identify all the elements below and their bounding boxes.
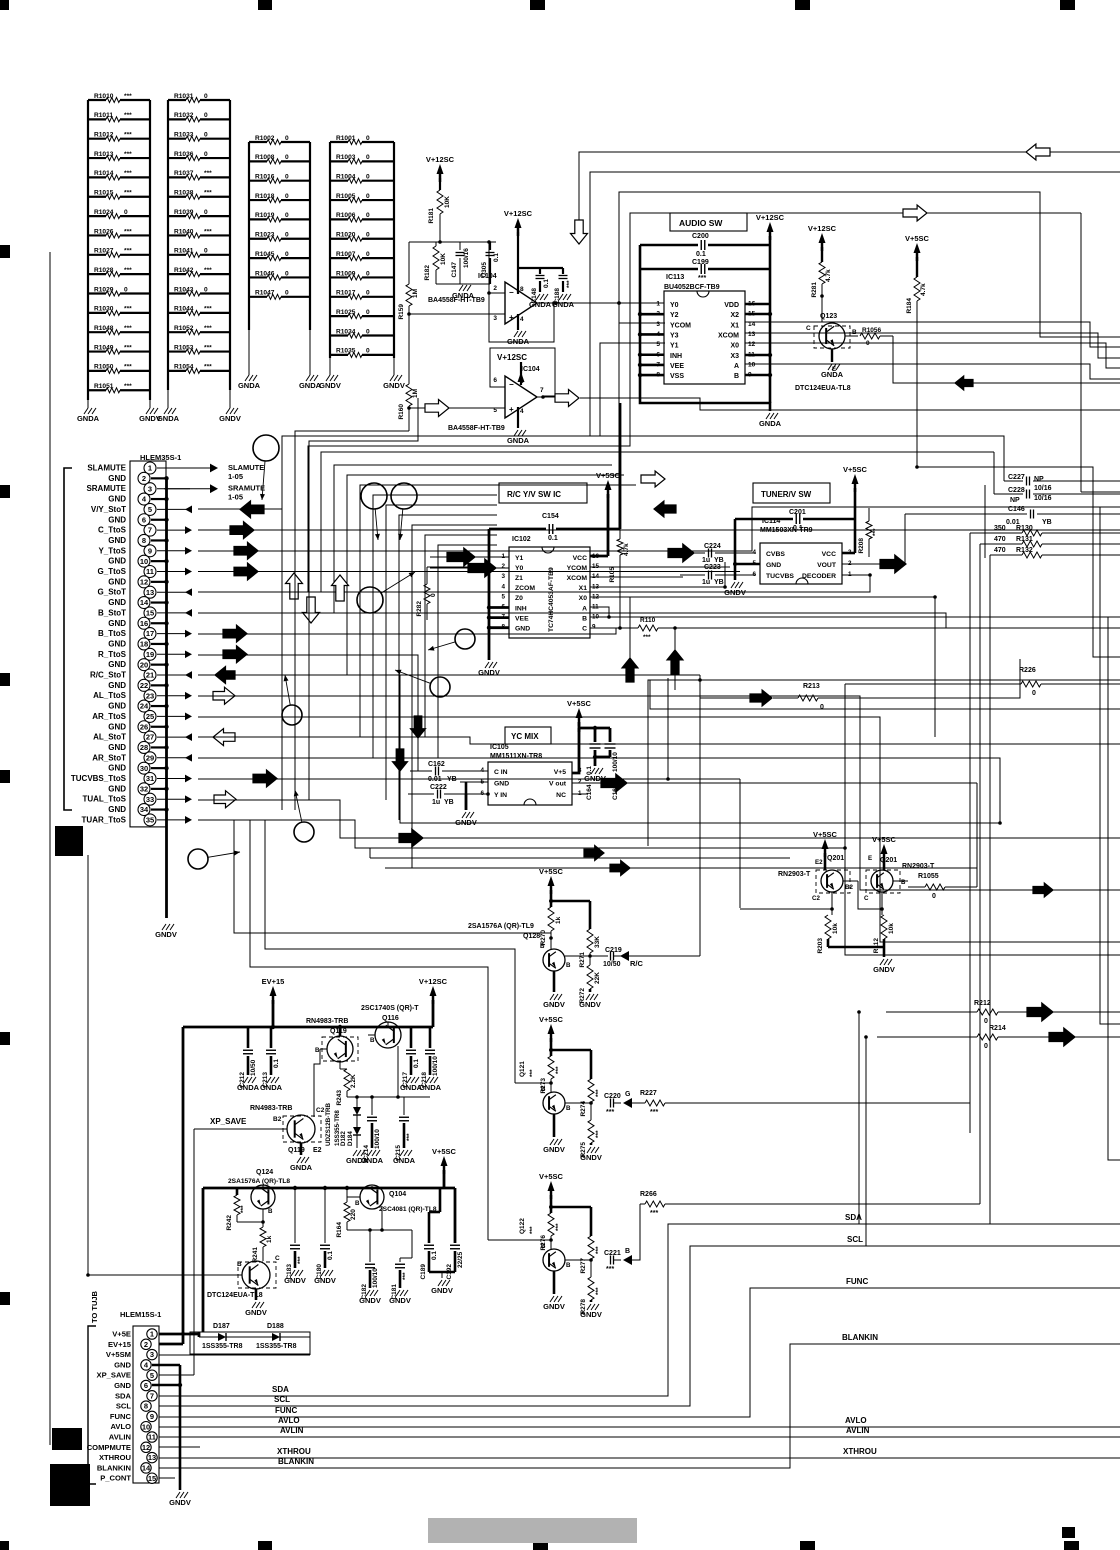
svg-text:E: E bbox=[868, 855, 872, 862]
fan wire j bbox=[438, 545, 497, 758]
capacitor C146 bbox=[905, 506, 1120, 564]
svg-text:Y0: Y0 bbox=[515, 565, 524, 572]
svg-text:2SA1576A (QR)-TL8: 2SA1576A (QR)-TL8 bbox=[228, 1178, 290, 1185]
svg-text:R1034: R1034 bbox=[336, 328, 356, 335]
svg-text:32: 32 bbox=[140, 784, 148, 793]
resistor R273 bbox=[540, 1056, 562, 1094]
fan stair top b bbox=[309, 398, 418, 800]
ground GNDA under Q123 bbox=[821, 364, 844, 379]
svg-text:D182: D182 bbox=[340, 1131, 347, 1146]
svg-text:TUNER/V SW: TUNER/V SW bbox=[761, 490, 812, 499]
ground GNDV under Q122 bbox=[543, 1296, 565, 1311]
svg-text:R1025: R1025 bbox=[336, 309, 356, 316]
signal arrow pin 13 bbox=[185, 588, 192, 596]
svg-text:P_CONT: P_CONT bbox=[100, 1474, 131, 1483]
svg-text:R1024: R1024 bbox=[94, 209, 114, 216]
svg-text:5: 5 bbox=[656, 341, 660, 348]
svg-text:AUDIO SW: AUDIO SW bbox=[679, 218, 723, 228]
svg-text:R274: R274 bbox=[580, 1101, 587, 1117]
svg-text:GNDV: GNDV bbox=[579, 1000, 601, 1009]
power net V+5SC at Q104 bbox=[432, 1147, 457, 1174]
wire feed Q121 base long bbox=[265, 820, 515, 1083]
ground GNDA under R182 bbox=[436, 283, 490, 285]
svg-text:GND: GND bbox=[108, 577, 126, 586]
svg-text:AVLIN: AVLIN bbox=[280, 1426, 304, 1435]
svg-text:0: 0 bbox=[204, 248, 208, 255]
ground GNDA under C188 bbox=[552, 294, 575, 309]
fan wire a bbox=[321, 452, 994, 592]
connector pin 6 GND bbox=[108, 514, 168, 526]
signal arrow pin 7 bbox=[185, 526, 192, 534]
ground GNDA under C212 bbox=[237, 1077, 260, 1092]
svg-text:V+5SM: V+5SM bbox=[106, 1350, 131, 1359]
svg-text:AVLO: AVLO bbox=[110, 1422, 131, 1431]
ground GNDA under C217 bbox=[400, 1077, 423, 1092]
resistor R275 bbox=[580, 1103, 602, 1158]
svg-text:1M: 1M bbox=[412, 289, 419, 298]
connector pin 1 V+5E bbox=[112, 1329, 157, 1339]
fan wire f bbox=[386, 505, 497, 800]
svg-text:R/C Y/V SW IC: R/C Y/V SW IC bbox=[507, 490, 561, 499]
svg-text:C199: C199 bbox=[692, 259, 709, 266]
svg-text:C189: C189 bbox=[420, 1264, 427, 1280]
svg-text:GNDA: GNDA bbox=[238, 381, 261, 390]
svg-text:C IN: C IN bbox=[494, 769, 508, 776]
svg-text:D187: D187 bbox=[213, 1323, 230, 1330]
svg-text:25: 25 bbox=[146, 712, 154, 721]
cap bus x985 bbox=[984, 485, 986, 558]
svg-text:IC102: IC102 bbox=[512, 536, 531, 543]
connector pin 21 R/C_StoT bbox=[90, 669, 190, 681]
capacitor C162 bbox=[410, 761, 488, 783]
transistor Q104 2SC4081 bbox=[347, 1185, 437, 1230]
svg-text:***: *** bbox=[606, 1266, 614, 1273]
svg-text:***: *** bbox=[595, 1089, 602, 1097]
svg-text:19: 19 bbox=[146, 650, 154, 659]
resistor R1045 bbox=[249, 251, 310, 261]
svg-text:V/Y_StoT: V/Y_StoT bbox=[91, 505, 126, 514]
wire R203 R112 join bbox=[828, 946, 884, 949]
svg-text:V+12SC: V+12SC bbox=[497, 353, 527, 362]
svg-text:XCOM: XCOM bbox=[718, 332, 739, 339]
connector pin 18 GND bbox=[108, 638, 168, 650]
svg-text:5: 5 bbox=[148, 505, 152, 514]
wire pin25 AR_TtoS bbox=[198, 717, 1120, 942]
svg-text:R/C_StoT: R/C_StoT bbox=[90, 671, 126, 680]
svg-text:RN2903-T: RN2903-T bbox=[778, 871, 811, 878]
connector pin 2 GND bbox=[108, 472, 168, 484]
signal arrow pin 23 bbox=[185, 692, 192, 700]
wire top frame 2 bbox=[282, 172, 1120, 810]
svg-text:SRAMUTE: SRAMUTE bbox=[86, 484, 126, 493]
fan wire h bbox=[412, 525, 497, 868]
svg-text:2SC1740S (QR)-T: 2SC1740S (QR)-T bbox=[361, 1005, 419, 1012]
svg-text:GND: GND bbox=[494, 780, 509, 787]
resistor R1023 bbox=[249, 232, 310, 242]
vertical with up arrow x675 bbox=[667, 626, 683, 690]
connector pin 5 XP_SAVE bbox=[97, 1370, 158, 1380]
connector pin 9 FUNC bbox=[110, 1411, 157, 1421]
wire SDA bbox=[159, 1213, 1120, 1396]
svg-text:GNDA: GNDA bbox=[260, 1083, 283, 1092]
svg-text:0: 0 bbox=[204, 93, 208, 100]
svg-text:BA4558F-HT-TB9: BA4558F-HT-TB9 bbox=[448, 425, 505, 432]
resistor R1024 bbox=[88, 209, 150, 219]
block arrow from opamp2 bbox=[555, 390, 579, 407]
svg-text:12: 12 bbox=[140, 577, 148, 586]
svg-text:V+5E: V+5E bbox=[112, 1330, 131, 1339]
callout circle bbox=[294, 790, 314, 842]
svg-text:GNDV: GNDV bbox=[580, 1153, 602, 1162]
bus line 858 bbox=[369, 848, 371, 858]
svg-text:2SC4081 (QR)-TL8: 2SC4081 (QR)-TL8 bbox=[379, 1206, 437, 1213]
svg-text:R1019: R1019 bbox=[255, 212, 275, 219]
svg-text:***: *** bbox=[555, 1066, 562, 1074]
svg-text:Q201: Q201 bbox=[880, 857, 897, 864]
svg-text:R271: R271 bbox=[579, 952, 586, 968]
connector pin 24 GND bbox=[108, 700, 168, 712]
resistor R274 bbox=[580, 1079, 602, 1117]
svg-text:9: 9 bbox=[150, 1412, 154, 1421]
resistor R1009 bbox=[330, 270, 394, 280]
thick bus V+5SC lower bbox=[203, 1188, 455, 1332]
svg-text:33: 33 bbox=[146, 795, 154, 804]
fan stair top a bbox=[295, 431, 409, 810]
svg-text:V+5: V+5 bbox=[554, 769, 567, 776]
svg-text:R1003: R1003 bbox=[336, 154, 356, 161]
svg-text:R243: R243 bbox=[336, 1090, 343, 1106]
power net V+12SC (R181 block) bbox=[426, 155, 455, 182]
svg-text:4: 4 bbox=[501, 583, 505, 590]
svg-text:***: *** bbox=[595, 1130, 602, 1138]
svg-text:C_TtoS: C_TtoS bbox=[98, 526, 127, 535]
power net V+5SC at Q201a bbox=[813, 830, 838, 857]
resistor R1001 bbox=[330, 135, 394, 145]
svg-text:VSS: VSS bbox=[670, 373, 684, 380]
wire pin19 R_TtoS bbox=[198, 655, 418, 771]
svg-text:XP_SAVE: XP_SAVE bbox=[97, 1371, 131, 1380]
IC U102 TC74HC4053AF body bbox=[501, 536, 599, 638]
connector pin 7 SDA bbox=[115, 1391, 157, 1401]
svg-text:1u: 1u bbox=[432, 799, 440, 806]
svg-text:E: E bbox=[832, 366, 836, 373]
svg-text:0: 0 bbox=[285, 232, 289, 239]
svg-text:***: *** bbox=[124, 248, 132, 255]
svg-text:4.7k: 4.7k bbox=[623, 543, 630, 556]
svg-text:***: *** bbox=[297, 1256, 304, 1264]
IC114 VOUT wire bbox=[842, 563, 884, 565]
svg-text:C222: C222 bbox=[430, 784, 447, 791]
svg-text:VCC: VCC bbox=[573, 555, 587, 562]
svg-text:R1020: R1020 bbox=[336, 232, 356, 239]
svg-text:R1033: R1033 bbox=[174, 132, 194, 139]
svg-text:SDA: SDA bbox=[845, 1213, 862, 1222]
svg-text:3: 3 bbox=[656, 321, 660, 328]
wire IC113 A staircase bbox=[745, 364, 1120, 379]
svg-text:R1041: R1041 bbox=[174, 248, 194, 255]
svg-text:V+12SC: V+12SC bbox=[756, 213, 785, 222]
ground GNDV under C182 bbox=[359, 1290, 381, 1305]
svg-text:Y0: Y0 bbox=[670, 302, 679, 309]
wire opamp1 inputs bbox=[489, 292, 505, 294]
svg-text:0: 0 bbox=[285, 193, 289, 200]
svg-text:0: 0 bbox=[285, 212, 289, 219]
svg-text:Y2: Y2 bbox=[670, 312, 679, 319]
block arrow into opamp2 bbox=[425, 400, 449, 417]
svg-text:0.1: 0.1 bbox=[493, 253, 500, 262]
callout circle bbox=[253, 435, 279, 500]
svg-text:7: 7 bbox=[148, 526, 152, 535]
svg-text:C228: C228 bbox=[1008, 487, 1025, 494]
svg-text:AVLIN: AVLIN bbox=[109, 1433, 131, 1442]
svg-text:R164: R164 bbox=[336, 1222, 343, 1238]
connector pin 29 AR_StoT bbox=[92, 752, 190, 764]
power net EV+15 bbox=[262, 977, 285, 1004]
svg-text:GNDV: GNDV bbox=[543, 1302, 565, 1311]
svg-text:R1012: R1012 bbox=[94, 132, 114, 139]
svg-text:G_StoT: G_StoT bbox=[98, 588, 127, 597]
svg-text:R182: R182 bbox=[424, 265, 431, 281]
arrow on bus 838 bbox=[399, 829, 423, 847]
svg-text:Q104: Q104 bbox=[389, 1191, 406, 1198]
svg-text:SLAMUTE: SLAMUTE bbox=[87, 464, 126, 473]
HLEM15S GND bus bbox=[152, 1365, 182, 1490]
signal arrow pin 9 bbox=[185, 547, 192, 555]
svg-text:C221: C221 bbox=[604, 1250, 621, 1257]
svg-text:R1004: R1004 bbox=[336, 174, 356, 181]
svg-text:11: 11 bbox=[148, 1433, 156, 1442]
arrow into C219 bbox=[620, 951, 629, 961]
svg-text:GNDA: GNDA bbox=[290, 1163, 313, 1172]
svg-text:B: B bbox=[541, 1243, 546, 1250]
wire BLANKIN bbox=[159, 1333, 1120, 1468]
svg-text:R1039: R1039 bbox=[174, 209, 194, 216]
IC113 pin3 YCOM wire bbox=[619, 322, 664, 324]
resistor R1019 bbox=[249, 212, 310, 222]
svg-text:B: B bbox=[625, 1248, 630, 1255]
wire pin5 XP_SAVE bbox=[159, 1374, 194, 1376]
svg-text:R1006: R1006 bbox=[336, 212, 356, 219]
wire Q119b collector to Q119a bbox=[314, 1049, 320, 1117]
wire opamp2 inputs bbox=[409, 407, 505, 409]
svg-text:X3: X3 bbox=[730, 353, 739, 360]
block arrow V/Y_StoT bbox=[240, 501, 264, 518]
connector pin 25 AR_TtoS bbox=[92, 710, 190, 722]
svg-text:26: 26 bbox=[140, 722, 148, 731]
IC114 left wiring bbox=[733, 519, 760, 580]
svg-text:1M: 1M bbox=[412, 389, 419, 398]
ground GNDV for HLEM35S-1 bbox=[155, 924, 177, 939]
svg-text:2: 2 bbox=[493, 285, 497, 292]
resistor R1043 bbox=[168, 286, 230, 296]
callout circle bbox=[391, 483, 417, 540]
connector pin 30 GND bbox=[108, 762, 168, 774]
svg-text:4.7k: 4.7k bbox=[920, 283, 927, 296]
resistor R1055 bbox=[908, 783, 977, 900]
svg-text:C: C bbox=[806, 325, 811, 332]
svg-text:0: 0 bbox=[204, 151, 208, 158]
wire pin2 EV+15 bbox=[159, 1343, 183, 1346]
transistor Q201b RN2903-T bbox=[864, 855, 935, 911]
resistor R1005 bbox=[330, 193, 394, 203]
svg-text:10: 10 bbox=[748, 361, 756, 368]
svg-text:R1010: R1010 bbox=[94, 93, 114, 100]
svg-text:GND: GND bbox=[108, 598, 126, 607]
svg-text:SCL: SCL bbox=[116, 1402, 132, 1411]
resistor R1049 bbox=[88, 344, 150, 354]
capacitor C180 bbox=[316, 1186, 334, 1280]
svg-text:Q121: Q121 bbox=[519, 1061, 526, 1077]
resistor R277 bbox=[580, 1236, 602, 1274]
wire pin21 R/C_StoT bbox=[198, 675, 700, 880]
wire IC105 Vout east bbox=[730, 783, 977, 882]
resistor R181 bbox=[428, 178, 451, 224]
wire pin5 V/Y_StoT line bbox=[198, 508, 282, 510]
svg-text:EV+15: EV+15 bbox=[108, 1340, 132, 1349]
ground GNDV under R272 bbox=[579, 994, 601, 1009]
svg-text:CVBS: CVBS bbox=[766, 551, 785, 558]
svg-text:0.1: 0.1 bbox=[413, 1059, 420, 1068]
svg-text:GND: GND bbox=[766, 562, 781, 569]
svg-text:BLANKIN: BLANKIN bbox=[278, 1457, 314, 1466]
ground GNDA bbox=[157, 390, 180, 423]
svg-text:VEE: VEE bbox=[670, 363, 684, 370]
svg-text:R1048: R1048 bbox=[94, 325, 114, 332]
svg-text:8: 8 bbox=[144, 1402, 148, 1411]
svg-text:28: 28 bbox=[140, 743, 148, 752]
svg-text:***: *** bbox=[529, 1069, 536, 1077]
svg-text:X1: X1 bbox=[579, 585, 588, 592]
capacitor C224 bbox=[694, 543, 756, 564]
resistor R105 bbox=[609, 529, 630, 630]
svg-text:GNDV: GNDV bbox=[155, 930, 177, 939]
svg-text:10/16: 10/16 bbox=[1034, 495, 1052, 502]
svg-text:10k: 10k bbox=[832, 923, 839, 934]
svg-text:C164: C164 bbox=[586, 784, 593, 800]
diode D187 bbox=[199, 1323, 272, 1350]
svg-text:E2: E2 bbox=[313, 1147, 322, 1154]
transistor Q201a RN2903-T bbox=[778, 853, 858, 911]
svg-text:DECODER: DECODER bbox=[802, 573, 836, 580]
svg-text:100/10: 100/10 bbox=[432, 1056, 439, 1076]
svg-text:0: 0 bbox=[1032, 690, 1036, 697]
svg-text:***: *** bbox=[124, 170, 132, 177]
svg-text:***: *** bbox=[124, 325, 132, 332]
capacitor C227 bbox=[1004, 474, 1120, 486]
svg-text:V+5SC: V+5SC bbox=[872, 835, 897, 844]
svg-text:Z0: Z0 bbox=[515, 595, 523, 602]
signal arrow pin 35 bbox=[185, 816, 192, 824]
svg-text:100/10: 100/10 bbox=[612, 752, 619, 772]
svg-text:220: 220 bbox=[350, 1209, 357, 1220]
ground GNDA under C215 bbox=[393, 1150, 416, 1165]
connector pin 4 GND bbox=[108, 493, 168, 505]
svg-text:R1044: R1044 bbox=[174, 306, 194, 313]
connector pin 6 GND bbox=[114, 1380, 151, 1390]
transistor Q115 DTC124EUA bbox=[207, 1255, 280, 1300]
svg-text:R1055: R1055 bbox=[918, 873, 939, 880]
resistor R1037 bbox=[168, 170, 230, 180]
svg-text:35: 35 bbox=[146, 816, 154, 825]
connector pin 12 GND bbox=[108, 576, 168, 588]
resistor R1011 bbox=[88, 112, 150, 122]
svg-text:RN4983-TRB: RN4983-TRB bbox=[306, 1018, 348, 1025]
svg-text:R1045: R1045 bbox=[255, 251, 275, 258]
wire pin3 V+5SM bbox=[159, 1354, 310, 1356]
svg-text:GND: GND bbox=[108, 619, 126, 628]
svg-text:−: − bbox=[509, 380, 514, 389]
resistor R242 bbox=[226, 1188, 263, 1231]
block arrow B_TtoS bbox=[223, 625, 247, 642]
resistor R1020 bbox=[330, 232, 394, 242]
wire opamp2 output bbox=[537, 396, 556, 398]
svg-text:12: 12 bbox=[142, 1443, 150, 1452]
resistor R1051 bbox=[88, 383, 150, 393]
connector pin 8 SCL bbox=[116, 1401, 151, 1411]
capacitor C222 bbox=[408, 784, 490, 806]
svg-text:***: *** bbox=[555, 1223, 562, 1231]
svg-text:R1009: R1009 bbox=[336, 270, 356, 277]
svg-text:GNDV: GNDV bbox=[284, 1276, 306, 1285]
connector pin 15 B_StoT bbox=[98, 607, 190, 619]
resistor R1034 bbox=[330, 328, 394, 338]
svg-text:B2: B2 bbox=[845, 884, 853, 891]
ground GNDA under Q119b bbox=[290, 1157, 313, 1172]
wire FUNC bbox=[159, 1277, 1120, 1417]
bus line 868 bbox=[385, 846, 977, 876]
IC U105 MM1511XN body bbox=[480, 762, 582, 805]
fan wire e bbox=[373, 495, 497, 758]
capacitor C164 bbox=[586, 728, 601, 800]
svg-text:Y1: Y1 bbox=[670, 343, 679, 350]
svg-text:R1047: R1047 bbox=[255, 290, 275, 297]
svg-text:G_TtoS: G_TtoS bbox=[98, 567, 127, 576]
ground GNDV under C180 bbox=[314, 1270, 336, 1285]
resistor R1004 bbox=[330, 174, 394, 184]
connector pin 28 GND bbox=[108, 741, 168, 753]
svg-text:R1051: R1051 bbox=[94, 383, 114, 390]
capacitor C305 bbox=[481, 242, 500, 284]
block arrow AL_TtoS hollow bbox=[213, 687, 235, 704]
svg-text:4.7k: 4.7k bbox=[825, 269, 832, 282]
resistor R160 bbox=[398, 314, 419, 431]
resistor R241 bbox=[252, 1220, 273, 1262]
resistor R1029 bbox=[88, 286, 150, 296]
box TUNER/V SW bbox=[753, 483, 830, 503]
svg-text:C: C bbox=[582, 626, 587, 633]
wire C219 to corner bbox=[629, 955, 700, 957]
power net V+5SC at IC102 bbox=[596, 471, 621, 498]
svg-text:VDD: VDD bbox=[724, 302, 739, 309]
svg-text:0: 0 bbox=[430, 593, 437, 597]
svg-text:GND: GND bbox=[108, 536, 126, 545]
svg-text:18: 18 bbox=[140, 640, 148, 649]
wire pin7 C_TtoS bbox=[198, 529, 1120, 531]
svg-text:XTHROU: XTHROU bbox=[99, 1453, 132, 1462]
svg-text:B: B bbox=[901, 879, 906, 886]
ground GNDV bbox=[383, 358, 405, 390]
wire pin33 TUAL_TtoS bbox=[198, 800, 1120, 838]
svg-text:MM1511XN-TR8: MM1511XN-TR8 bbox=[490, 753, 542, 760]
connector pin 5 V/Y_StoT bbox=[91, 503, 190, 515]
svg-text:6: 6 bbox=[493, 377, 497, 384]
svg-text:GND: GND bbox=[108, 495, 126, 504]
ground GNDV under R278 bbox=[580, 1304, 602, 1319]
svg-text:R281: R281 bbox=[811, 282, 818, 298]
connector pin 26 GND bbox=[108, 721, 168, 733]
svg-text:V+5SC: V+5SC bbox=[567, 699, 592, 708]
svg-text:GND: GND bbox=[108, 681, 126, 690]
